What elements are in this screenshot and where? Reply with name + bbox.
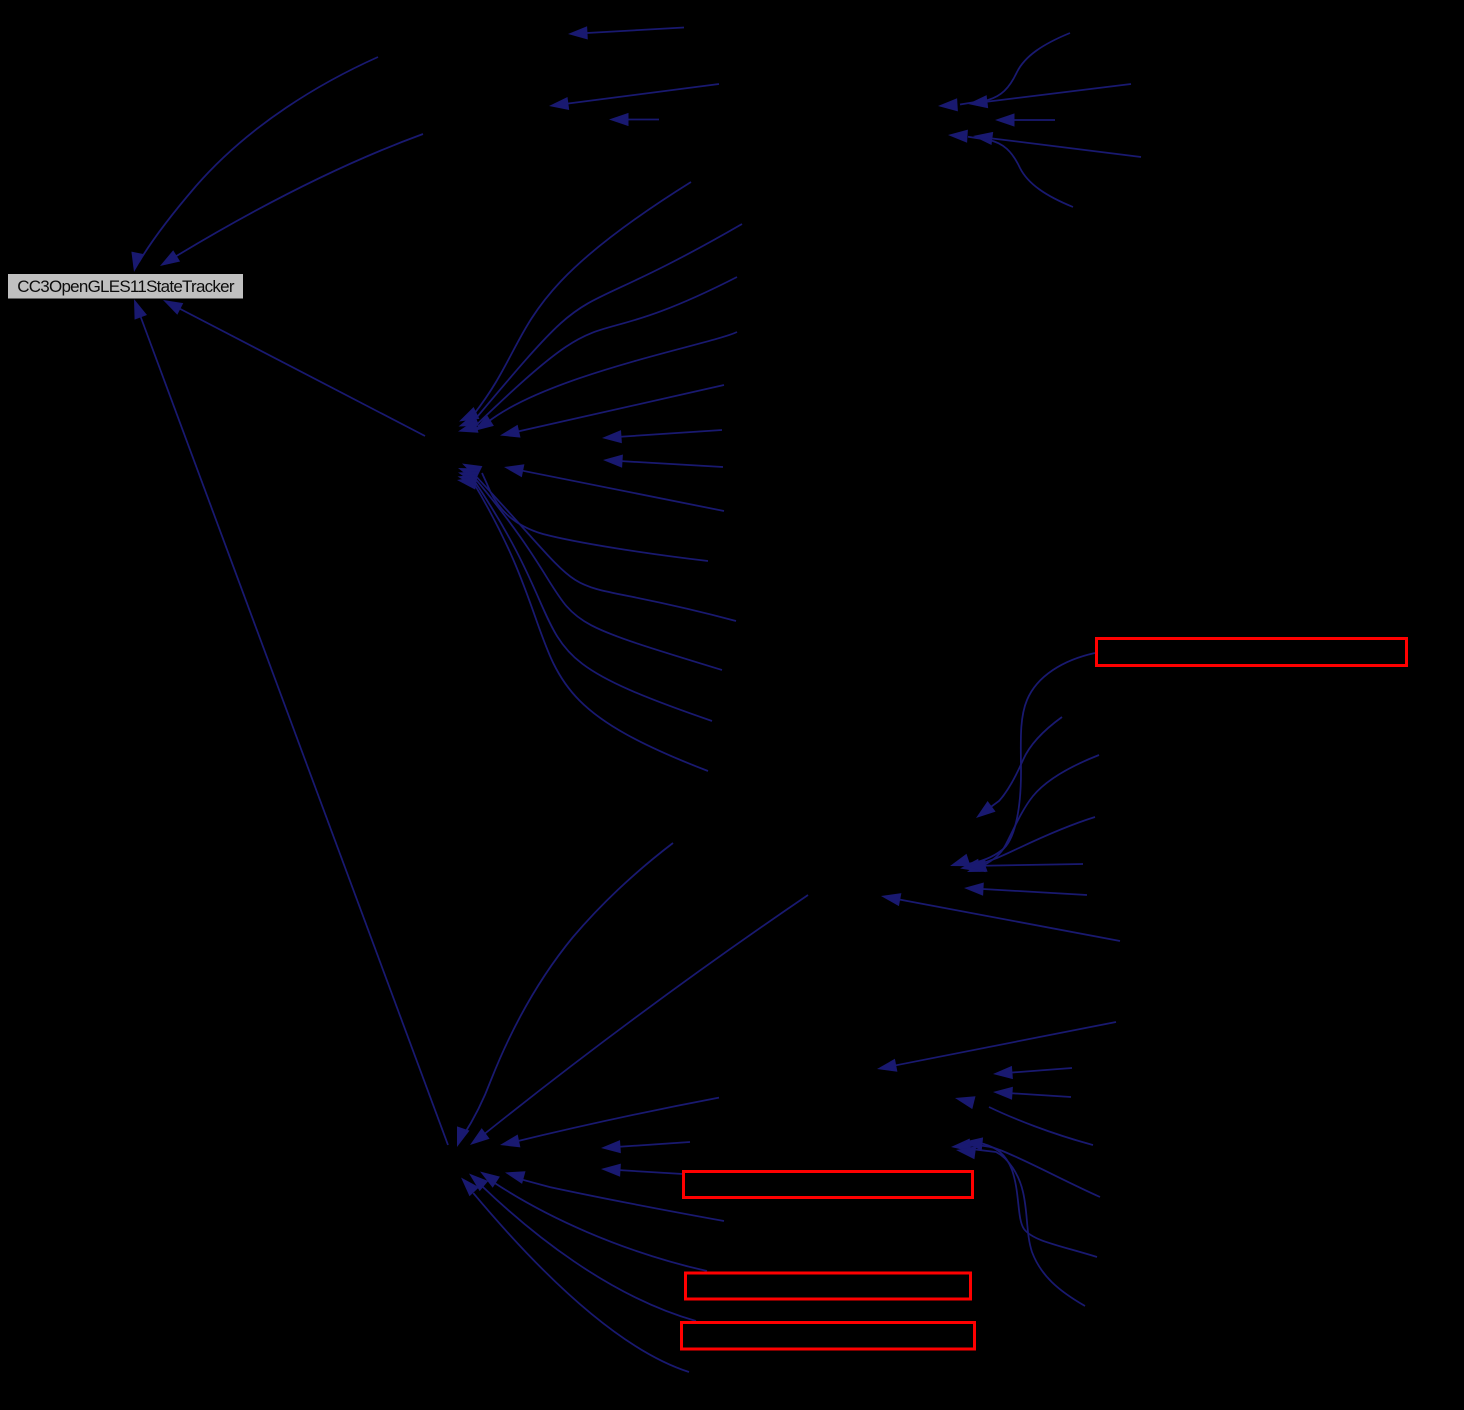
svg-text:CC3OpenGLES11StateTracker: CC3OpenGLES11StateTracker [17,277,235,296]
